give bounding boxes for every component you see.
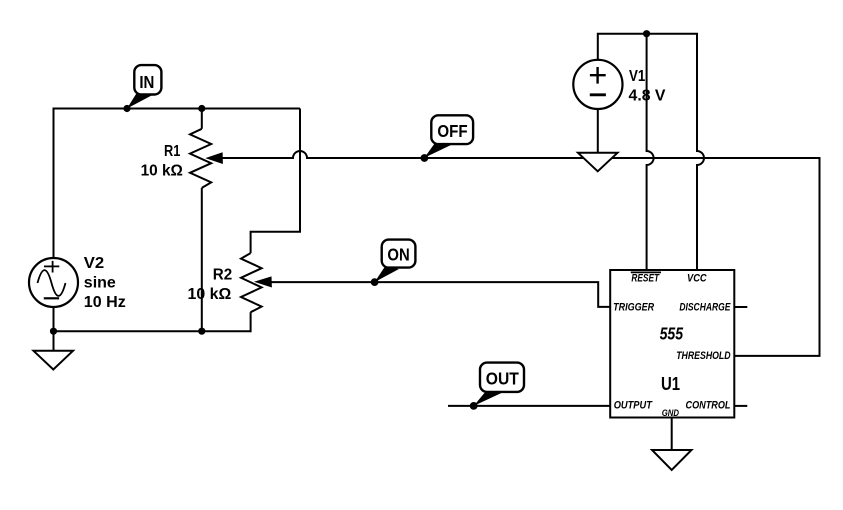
node junction dot OFF (421, 154, 429, 162)
svg-text:10 Hz: 10 Hz (84, 294, 126, 311)
wire top rail IN (54, 108, 301, 110)
label R1 value (141, 143, 183, 179)
ground symbol below V2 (34, 351, 74, 370)
node junction dot R1 top (198, 105, 205, 112)
svg-text:GND: GND (662, 408, 679, 419)
wire V2 bottom to ground (53, 307, 55, 351)
wire right vertical jog to R2 top (251, 109, 300, 254)
svg-text:R1: R1 (164, 143, 180, 160)
potentiometer R1 wiper arrow (205, 152, 223, 164)
svg-text:U1: U1 (661, 374, 680, 394)
wire OUT net (448, 405, 610, 407)
svg-text:555: 555 (660, 323, 684, 343)
potentiometer R1 zigzag (190, 129, 211, 188)
svg-text:IN: IN (139, 72, 154, 92)
node junction dot R1 bottom (198, 328, 205, 335)
svg-text:VCC: VCC (687, 272, 707, 284)
svg-text:DISCHARGE: DISCHARGE (679, 302, 731, 314)
node junction dot ON (371, 278, 379, 286)
wire CONTROL stub (734, 405, 747, 407)
pin RESET overline (631, 271, 661, 273)
svg-text:ON: ON (387, 245, 409, 265)
svg-text:10 kΩ: 10 kΩ (141, 163, 183, 180)
ground symbol below U1 (652, 450, 692, 470)
svg-text:R2: R2 (213, 267, 232, 284)
wire bottom rail (54, 330, 251, 332)
voltage source V1 DC body (573, 60, 622, 109)
svg-text:OUTPUT: OUTPUT (614, 399, 653, 411)
potentiometer R2 zigzag (241, 253, 262, 312)
wire V1 top lead and rail to VCC vertical with hop (598, 34, 704, 270)
net label ON (375, 240, 416, 283)
wire V1 bottom lead (597, 109, 599, 153)
ground symbol below V1 (578, 153, 618, 172)
node junction dot OUT (470, 402, 478, 410)
op-amp U1 555 timer box (610, 270, 734, 418)
net label IN (127, 65, 161, 108)
wire U1 GND lead (671, 418, 673, 451)
wire RESET vertical with hop (647, 34, 654, 270)
label R2 value (188, 267, 233, 303)
wire DISCHARGE stub (734, 306, 747, 308)
svg-text:THRESHOLD: THRESHOLD (676, 350, 730, 362)
node junction dot V2 bottom (50, 328, 57, 335)
svg-text:4.8 V: 4.8 V (629, 88, 666, 105)
svg-text:RESET: RESET (631, 272, 660, 284)
svg-text:OUT: OUT (486, 368, 519, 388)
wire left rail to V2 (53, 108, 55, 259)
wire R2 bottom lead (250, 312, 252, 332)
svg-text:OFF: OFF (437, 121, 467, 141)
wire ON net: R2 wiper to TRIGGER (270, 282, 610, 307)
net label OUT (474, 363, 524, 406)
net label OFF (424, 115, 473, 157)
potentiometer R2 wiper arrow (254, 276, 272, 287)
node junction dot IN at (127,108.5) (123, 105, 130, 112)
wire R1 top lead (201, 109, 203, 129)
wire OFF net: R1 wiper to threshold with hop at x=300 (219, 151, 820, 356)
label V2 value (84, 255, 126, 311)
svg-text:CONTROL: CONTROL (686, 399, 731, 411)
svg-text:10 kΩ: 10 kΩ (188, 286, 232, 303)
svg-text:TRIGGER: TRIGGER (613, 302, 654, 314)
svg-text:V1: V1 (629, 68, 645, 85)
svg-text:V2: V2 (84, 255, 104, 272)
wire R1 bottom lead (201, 188, 203, 331)
svg-text:sine: sine (84, 275, 116, 292)
label V1 value (629, 68, 666, 104)
node junction dot V1 top rail (643, 30, 650, 37)
voltage source V2 sine body (29, 258, 78, 307)
